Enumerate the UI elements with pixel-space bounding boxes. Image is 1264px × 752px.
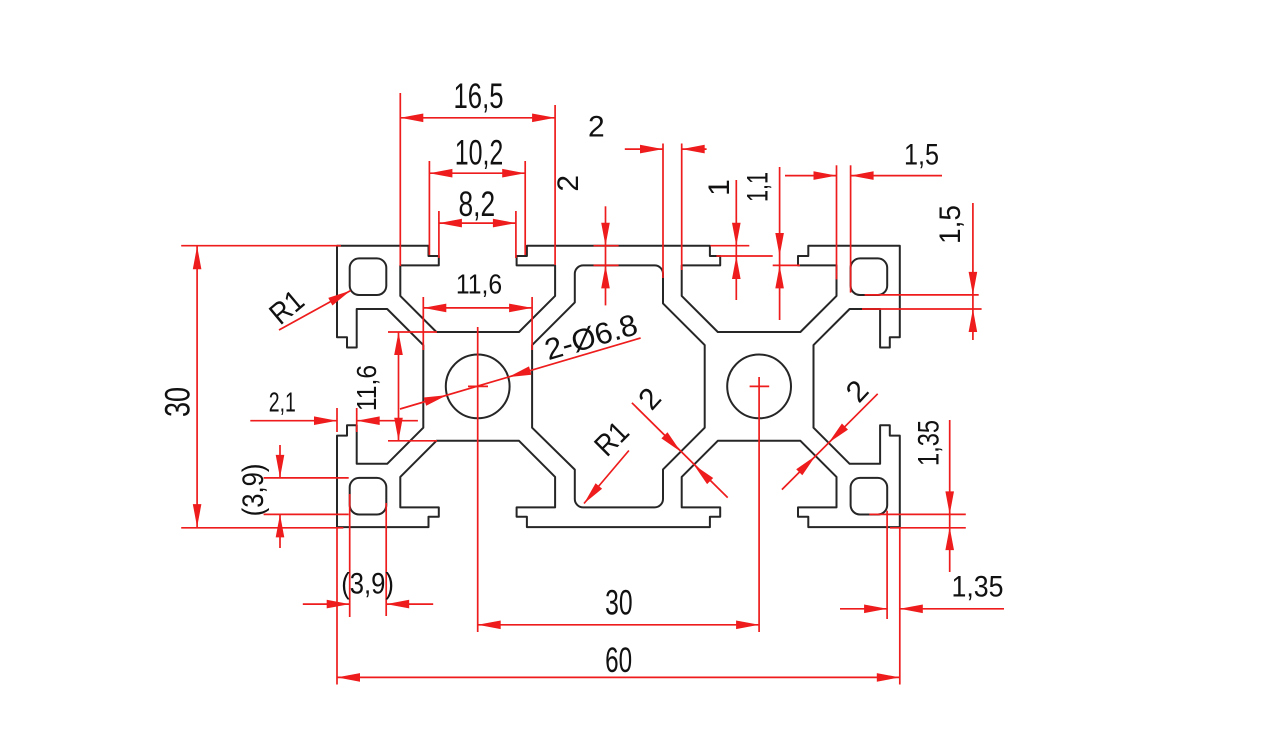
svg-text:11,6: 11,6 — [351, 365, 382, 411]
hole centerlines and center marks — [468, 327, 769, 632]
core hole circle right (Ø6.8) — [727, 355, 791, 419]
svg-text:(3,9): (3,9) — [237, 464, 270, 517]
dimension (3,9) (corner hole width, bottom) — [303, 494, 433, 617]
dimension (3,9) (corner hole height, left) — [237, 445, 349, 548]
svg-text:10,2: 10,2 — [455, 133, 504, 172]
svg-text:1,35: 1,35 — [952, 570, 1004, 603]
svg-text:1,35: 1,35 — [912, 420, 945, 466]
svg-text:1,5: 1,5 — [934, 205, 967, 244]
svg-text:(3,9): (3,9) — [341, 567, 394, 600]
dimension 60 (profile width, bottom) — [337, 527, 900, 684]
svg-text:1,1: 1,1 — [741, 172, 774, 202]
label R1 (central cavity fillet) — [584, 415, 636, 503]
dimension 30 (profile height, left) — [159, 246, 344, 528]
corner screw-channel square hole top-left (3.9x3.9 R1) — [350, 258, 387, 295]
svg-text:16,5: 16,5 — [454, 77, 504, 116]
svg-text:11,6: 11,6 — [456, 269, 502, 300]
dimension 1 (mouth step depth) — [703, 179, 773, 300]
dimension 1,35 (corner hole to bottom surface, vertical right) — [869, 420, 966, 572]
dimension 2,1 (side wall thickness) — [250, 387, 418, 432]
dimension 2 (central web thickness, top) — [588, 111, 707, 279]
svg-text:60: 60 — [605, 641, 632, 680]
core hole circle left (Ø6.8) — [446, 355, 510, 419]
corner screw-channel square hole bottom-left (3.9x3.9 R1) — [350, 478, 387, 515]
dimension 1,5 (corner hole to ledge, vertical right) — [862, 203, 982, 340]
svg-text:2: 2 — [552, 175, 585, 192]
central hexagonal cavity between the two cells — [532, 265, 705, 507]
svg-text:2: 2 — [588, 111, 605, 144]
dimension 8,2 (slot inner mouth width) — [439, 185, 516, 258]
svg-text:30: 30 — [605, 584, 633, 623]
svg-text:8,2: 8,2 — [459, 185, 496, 224]
dimension 10,2 (slot outer mouth width) — [429, 133, 525, 255]
extrusion profile outer outline with six T-slot openings — [337, 246, 900, 527]
corner screw-channel square hole top-right (3.9x3.9 R1) — [851, 258, 888, 295]
dimension 2 (diagonal web thickness, right) — [782, 374, 878, 489]
svg-text:30: 30 — [159, 387, 198, 417]
svg-text:1,5: 1,5 — [904, 138, 939, 171]
dimension 1,1 (mouth step to flange) — [741, 167, 800, 320]
dimension 16,5 (slot cavity width under flange) — [400, 77, 555, 266]
dimension 11,6 (core width, horizontal) — [423, 269, 532, 350]
dimension 11,6 (core height, vertical) — [351, 332, 437, 441]
dimension 30 (hole pitch, bottom) — [478, 584, 759, 630]
corner screw-channel square hole bottom-right (3.9x3.9 R1) — [851, 478, 888, 515]
dimension 2-Ø6.8 (hole diameter leader) — [400, 308, 641, 409]
label R1 (corner hole radius, top-left) — [263, 284, 350, 331]
dimension 1,35 (corner hole to right surface, bottom) — [840, 511, 1004, 619]
svg-text:2,1: 2,1 — [269, 387, 296, 418]
svg-text:1: 1 — [703, 179, 736, 196]
dimension 1,5 (corner hole to cavity wall, horizontal) — [785, 138, 942, 292]
dimension 2 (diagonal web thickness, center) — [632, 382, 728, 498]
dimension 2 (top flange thickness, vertical) — [552, 175, 619, 305]
